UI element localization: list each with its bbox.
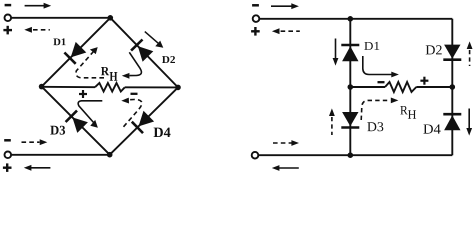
current arrow solid hook at D2 xyxy=(122,52,142,78)
label D1 (left) xyxy=(53,38,65,45)
label D3 (right) xyxy=(367,122,383,131)
wire inner-left rail xyxy=(349,19,351,155)
node right vertex xyxy=(175,85,181,91)
wire bottom rail xyxy=(258,154,452,156)
plus sign (upper-left terminal, right schematic) xyxy=(251,27,260,36)
diode D1 (right schematic, pointing up) xyxy=(341,45,359,61)
resistor RH (left schematic) xyxy=(95,83,125,92)
node bottom vertex xyxy=(107,152,113,158)
diode D4 (right schematic, pointing up) xyxy=(443,114,461,130)
label D2 (right) xyxy=(426,45,442,54)
minus sign (left of RH, above wire, right schematic) xyxy=(378,81,385,83)
node top vertex xyxy=(108,15,114,21)
label RH (left) xyxy=(101,67,117,81)
current arrow solid down (right of D4) xyxy=(466,109,472,136)
minus sign (upper-left terminal, right schematic) xyxy=(252,4,259,7)
node left vertex xyxy=(39,84,45,90)
label D4 (right) xyxy=(423,124,440,133)
wire middle right segment (right schematic) xyxy=(416,86,452,88)
wire bottom input xyxy=(11,154,110,156)
label D4 (left) xyxy=(154,128,171,137)
diode D3 (on L-B edge, pointing to upper-left) xyxy=(66,111,88,133)
terminal upper-left input (right schematic) xyxy=(253,15,260,22)
diode D2 (on T-R edge, pointing to upper-left) xyxy=(131,40,153,62)
minus sign (lower-left terminal) xyxy=(4,139,11,142)
diode D2 (right schematic, pointing down) xyxy=(443,45,461,60)
current arrow dashed up (right of D2) xyxy=(467,41,473,66)
current arrow solid right (upper-left, right schematic) xyxy=(271,3,299,9)
wire top rail xyxy=(259,18,452,20)
current arrow dashed left (upper-left) xyxy=(24,27,50,33)
label D3 (left) xyxy=(50,126,65,135)
label D2 (left) xyxy=(162,56,175,63)
current arrow dashed left (upper-left, right schematic) xyxy=(272,28,300,34)
label RH (right) xyxy=(400,106,416,119)
current arrow solid left (lower-left, right schematic) xyxy=(272,165,299,171)
wire edge bottom-left (L to B) xyxy=(42,87,110,155)
wire edge bottom-right (R to B) xyxy=(110,87,178,154)
wire middle right segment xyxy=(125,86,178,88)
minus sign (upper-left terminal) xyxy=(5,4,12,7)
plus sign (upper-left terminal) xyxy=(3,26,12,35)
current arrow solid right (upper-left) xyxy=(25,3,52,9)
label D1 (right) xyxy=(364,42,379,50)
plus sign (right of RH, above wire, right schematic) xyxy=(420,77,428,85)
terminal lower-left input (right schematic) xyxy=(252,152,259,159)
wire edge top-right (T to R) xyxy=(110,18,178,88)
diode D4 (on R-B edge, pointing to lower-left) xyxy=(132,111,154,133)
wire middle left segment xyxy=(42,86,95,88)
current arrow dashed hook at D3 (right schematic) xyxy=(361,98,398,121)
minus sign (right of RH, below wire) xyxy=(131,93,138,95)
plus sign (lower-left terminal) xyxy=(3,163,12,172)
node middle right (right schematic) xyxy=(450,84,456,90)
diode D1 (on T-L edge, pointing to lower-left) xyxy=(64,42,86,64)
current arrow solid straight at D2 xyxy=(145,32,164,48)
current arrow solid hook at D3 xyxy=(78,101,102,128)
current arrow solid down (left of D1) xyxy=(333,39,339,66)
resistor RH (right schematic) xyxy=(385,82,416,92)
terminal lower-left input xyxy=(5,152,12,159)
current arrow dashed hook at D4 xyxy=(121,98,142,127)
wire right rail xyxy=(451,19,453,155)
wire edge top-left (T to L) xyxy=(42,18,111,87)
node bottom of inner-left rail xyxy=(348,152,354,158)
wire middle left segment (right schematic) xyxy=(350,86,385,88)
current arrow dashed up (left of D3) xyxy=(329,108,335,135)
current arrow dashed right (lower-left) xyxy=(22,139,48,145)
diode D3 (right schematic, pointing down) xyxy=(341,112,359,128)
current arrow solid left (lower-left) xyxy=(24,165,51,171)
current arrow solid hook at D1 (right schematic) xyxy=(363,56,399,77)
node top of inner-left rail xyxy=(348,16,354,22)
wire top input xyxy=(11,17,110,19)
node middle left (right schematic) xyxy=(348,84,354,90)
plus sign (left of RH, below wire) xyxy=(79,90,87,98)
terminal upper-left input xyxy=(5,14,12,21)
current arrow dashed hook at D1 xyxy=(76,47,104,78)
current arrow dashed right (lower-left, right schematic) xyxy=(273,140,299,146)
